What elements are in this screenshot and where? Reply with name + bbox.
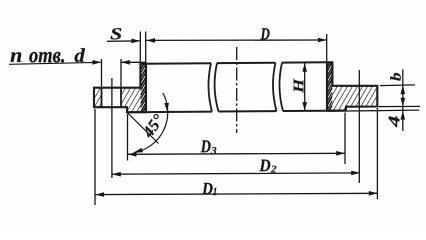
45deg dimension arc bbox=[134, 93, 168, 153]
flange face bottom edge segment 1 bbox=[127, 111, 212, 114]
D1 left extension line bbox=[94, 109, 96, 205]
break line curve 2b bbox=[279, 63, 283, 111]
D3 dimension line bbox=[128, 153, 345, 154]
n otv d leader underline bbox=[9, 62, 101, 64]
D1 right extension line bbox=[376, 108, 378, 199]
right bolt hole centerline bbox=[358, 70, 360, 183]
hole edge extension line right bbox=[120, 59, 122, 88]
label otv bbox=[29, 52, 64, 63]
label D bbox=[260, 28, 269, 39]
pipe rim top edge segment 2 bbox=[217, 62, 276, 64]
break line curve 1a bbox=[208, 63, 212, 111]
D3 right arrowhead bbox=[336, 151, 345, 156]
flange face bottom edge segment 3 bbox=[283, 110, 346, 112]
label D2-D bbox=[259, 160, 270, 172]
pipe rim top edge segment 1 bbox=[146, 62, 211, 65]
label S bbox=[111, 28, 122, 39]
bolt hole white gap in left plate bbox=[102, 87, 122, 109]
S leader arrowhead bbox=[131, 39, 140, 44]
b top extension line bbox=[380, 84, 415, 87]
D3 left arrowhead bbox=[128, 152, 137, 157]
break line curve 2a bbox=[273, 63, 277, 111]
4 arrowhead pointing up bbox=[401, 111, 406, 120]
hole edge extension line left bbox=[101, 59, 103, 88]
D2 left arrowhead bbox=[112, 172, 121, 177]
H bottom arrowhead bbox=[302, 102, 307, 111]
label b bbox=[390, 73, 400, 81]
d right arrowhead bbox=[121, 60, 130, 65]
45deg arc arrowhead at face line bbox=[164, 103, 169, 112]
b bottom arrowhead bbox=[401, 98, 406, 107]
left section outline bbox=[94, 64, 146, 113]
step bottom extension line right bbox=[347, 109, 420, 112]
label D1-1 bbox=[213, 188, 216, 195]
D dimension line bbox=[146, 39, 327, 41]
D1 right arrowhead bbox=[369, 191, 378, 196]
d left arrowhead bbox=[93, 60, 102, 65]
D right arrowhead bbox=[318, 38, 327, 43]
pipe rim top edge segment 3 bbox=[282, 61, 327, 63]
D1 left arrowhead bbox=[95, 192, 104, 197]
H top arrowhead bbox=[302, 63, 307, 72]
left bolt hole edge right bbox=[120, 88, 122, 108]
D2 right arrowhead bbox=[351, 171, 360, 176]
label n bbox=[11, 52, 22, 62]
b/4 vertical dimension line bbox=[402, 69, 404, 131]
right section outline bbox=[327, 62, 377, 111]
left wall dense hatch bbox=[141, 56, 146, 121]
label D3-D bbox=[201, 140, 211, 152]
label D1-D bbox=[202, 183, 213, 194]
label D3-3 bbox=[211, 147, 216, 154]
S extension line left bbox=[139, 32, 141, 64]
label d bbox=[75, 48, 85, 62]
S extension line right bbox=[145, 32, 147, 64]
right wall dense hatch bbox=[327, 54, 332, 119]
d right dimension line bbox=[121, 61, 146, 63]
label 4 bbox=[389, 116, 400, 127]
D1 dimension line bbox=[95, 193, 377, 194]
left bolt hole centerline bbox=[111, 78, 113, 178]
left bolt hole edge left bbox=[101, 88, 103, 108]
H dimension line bbox=[304, 63, 306, 111]
b top arrowhead bbox=[401, 85, 406, 94]
S leader line bbox=[107, 40, 140, 42]
flange face bottom edge segment 2 bbox=[219, 110, 277, 112]
label 45deg bbox=[141, 113, 164, 139]
D2 dimension line bbox=[112, 173, 360, 174]
central axis centerline dash-dot bbox=[236, 47, 238, 133]
chamfer 45 diagonal line bbox=[127, 112, 159, 143]
D3 right extension line bbox=[344, 113, 346, 165]
D left arrowhead bbox=[146, 38, 155, 43]
D3 left extension line bbox=[127, 114, 129, 161]
left flange section hatched area bbox=[94, 64, 146, 113]
label H bbox=[294, 78, 304, 92]
plate bottom extension line right bbox=[378, 105, 421, 107]
label D2-2 bbox=[271, 166, 277, 173]
break line curve 1b bbox=[215, 63, 219, 111]
D right extension line bbox=[326, 34, 328, 62]
45deg arc arrowhead at bottom end bbox=[133, 148, 143, 153]
right flange section hatched area bbox=[327, 62, 377, 111]
